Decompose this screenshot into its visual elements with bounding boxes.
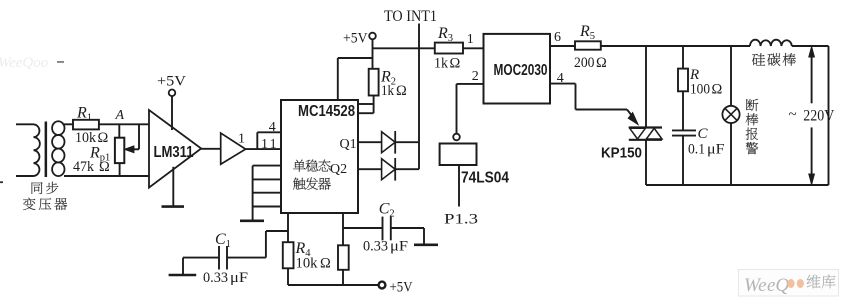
svg-text:LM311: LM311 bbox=[154, 144, 194, 161]
svg-text:1: 1 bbox=[467, 32, 474, 47]
svg-text:Q1: Q1 bbox=[340, 137, 357, 152]
svg-text:Ω: Ω bbox=[396, 83, 407, 99]
svg-text:Ω: Ω bbox=[596, 55, 607, 71]
svg-text:MOC2030: MOC2030 bbox=[494, 62, 548, 79]
svg-text:11: 11 bbox=[261, 137, 279, 152]
svg-text:μF: μF bbox=[230, 270, 248, 286]
svg-text:10k: 10k bbox=[296, 255, 319, 271]
svg-text:μF: μF bbox=[707, 141, 725, 157]
svg-text:100: 100 bbox=[690, 81, 710, 97]
svg-text:We: We bbox=[744, 275, 767, 296]
svg-text:1k: 1k bbox=[381, 83, 395, 99]
svg-text:+5V: +5V bbox=[390, 279, 413, 295]
svg-text:220V: 220V bbox=[803, 108, 835, 125]
svg-text:1k: 1k bbox=[434, 55, 449, 71]
svg-text:0.33: 0.33 bbox=[203, 270, 228, 286]
svg-text:Ω: Ω bbox=[320, 255, 331, 271]
svg-text:TO INT1: TO INT1 bbox=[384, 8, 437, 25]
svg-text:Q2: Q2 bbox=[330, 162, 347, 177]
svg-text:WeeQoo: WeeQoo bbox=[0, 55, 49, 71]
svg-text:0.1: 0.1 bbox=[688, 141, 705, 157]
svg-text:+5V: +5V bbox=[157, 73, 187, 89]
svg-text:4: 4 bbox=[269, 120, 276, 135]
svg-text:+5V: +5V bbox=[343, 30, 368, 46]
svg-text:P1.3: P1.3 bbox=[444, 211, 478, 227]
svg-text:47k: 47k bbox=[73, 159, 95, 175]
svg-text:Ω: Ω bbox=[712, 81, 723, 97]
svg-text:0.33: 0.33 bbox=[363, 239, 388, 255]
svg-text:A: A bbox=[115, 108, 125, 123]
svg-text:C: C bbox=[698, 126, 709, 142]
svg-text:Ω: Ω bbox=[99, 159, 110, 175]
svg-text:Ω: Ω bbox=[450, 55, 461, 71]
svg-text:μF: μF bbox=[390, 239, 408, 255]
svg-text:74LS04: 74LS04 bbox=[461, 170, 509, 187]
svg-text:1: 1 bbox=[238, 131, 245, 146]
svg-text:KP150: KP150 bbox=[601, 145, 642, 162]
svg-text:200: 200 bbox=[574, 55, 595, 71]
svg-text:eQ: eQ bbox=[767, 275, 789, 296]
svg-text:6: 6 bbox=[554, 30, 561, 45]
svg-text:2: 2 bbox=[472, 69, 479, 84]
svg-text:MC14528: MC14528 bbox=[298, 103, 355, 120]
svg-text:~: ~ bbox=[789, 107, 797, 123]
